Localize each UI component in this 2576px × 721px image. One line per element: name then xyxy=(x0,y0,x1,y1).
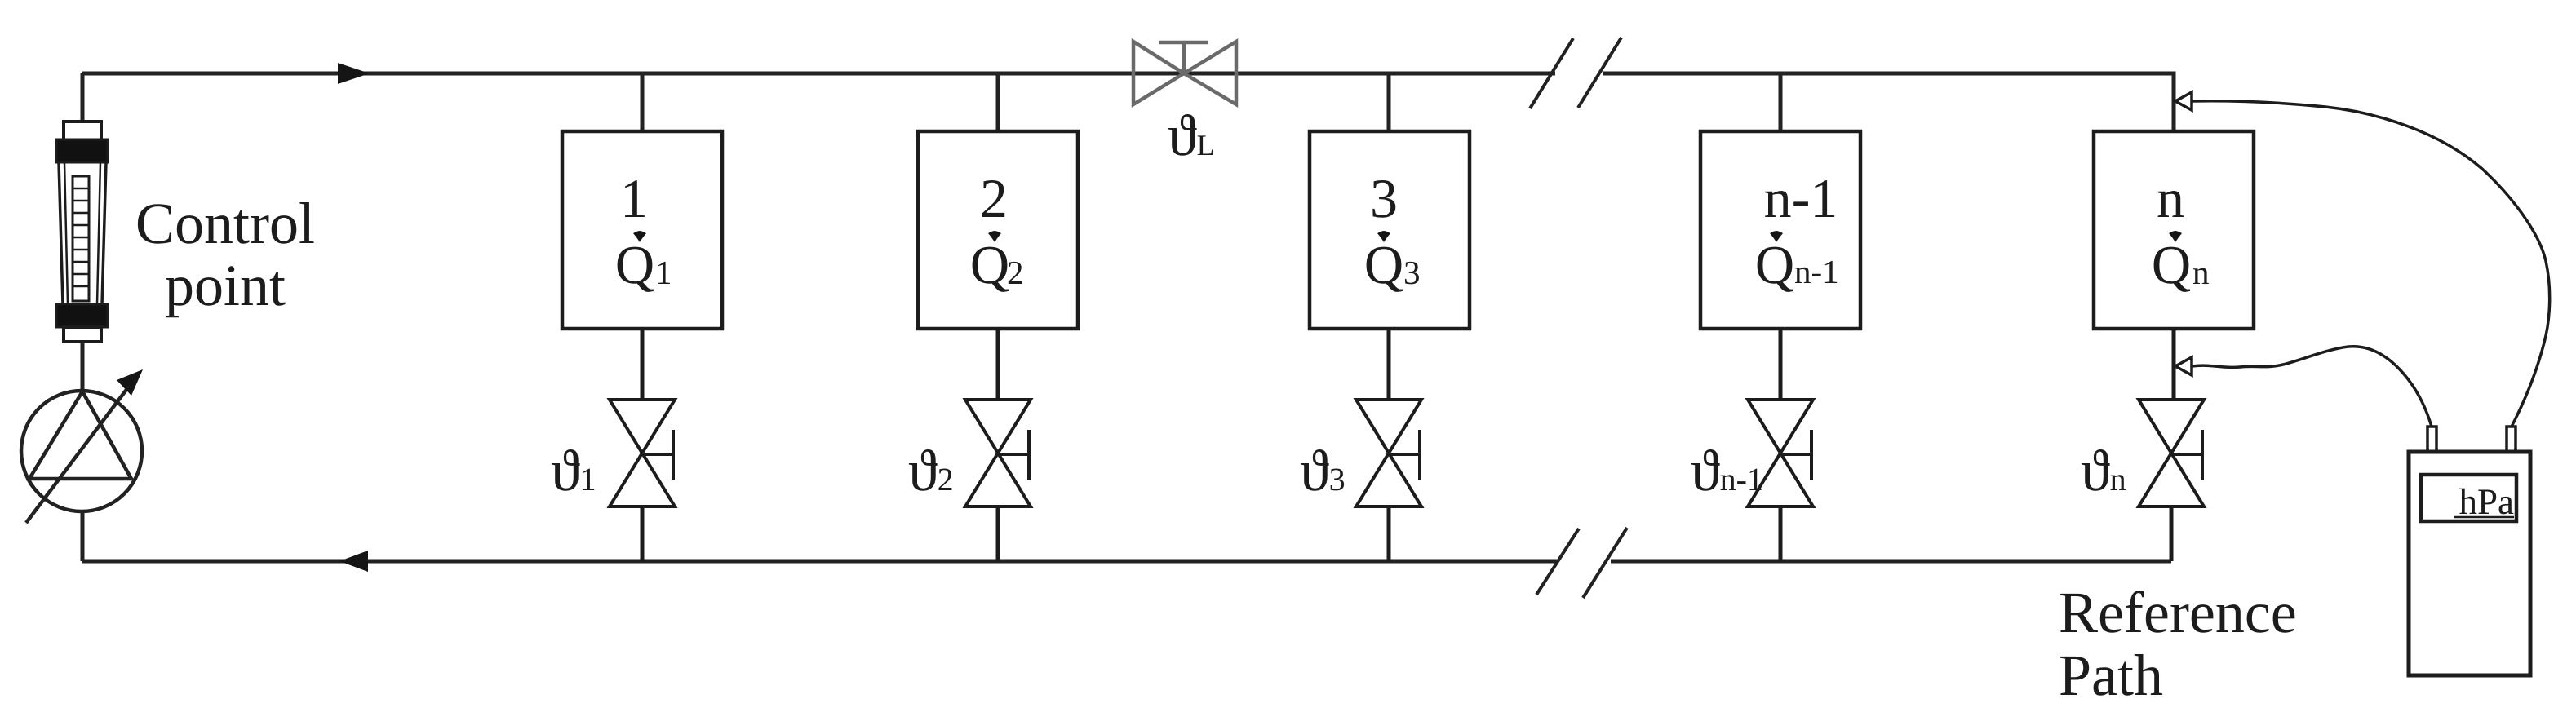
label box1 number 1 xyxy=(625,180,645,217)
label Q2 flow xyxy=(973,247,1009,292)
valve thetaL (bypass, gray) xyxy=(1133,42,1236,104)
box 3 xyxy=(1310,73,1470,329)
connector arrow lower xyxy=(2175,357,2192,375)
wire pump to bottom line xyxy=(81,511,85,561)
wire rotameter to pump xyxy=(81,341,85,392)
valve Vn-1 xyxy=(1748,329,1813,561)
pressure meter cable upper xyxy=(2192,101,2550,427)
label box n number xyxy=(2158,191,2184,217)
label Q2 subscript xyxy=(1009,262,1022,284)
break marks top line xyxy=(1530,38,1621,108)
label Path (text as path) xyxy=(2060,654,2162,696)
box n xyxy=(2094,131,2254,329)
label theta3 xyxy=(1301,449,1344,491)
arrow flow top xyxy=(338,63,370,84)
box 2 xyxy=(918,73,1078,329)
label box3 number 3 xyxy=(1372,180,1395,218)
valve V1 xyxy=(610,329,675,561)
box n-1 xyxy=(1700,73,1860,329)
label Qn-1 flow xyxy=(1758,247,1793,292)
label Q3 subscript xyxy=(1405,262,1419,285)
label theta2 xyxy=(909,449,952,491)
label hPa (text as path) xyxy=(2459,489,2514,515)
break marks bottom line xyxy=(1536,528,1627,598)
label Q3 flow xyxy=(1367,247,1403,292)
wire top line left segment xyxy=(82,72,1555,76)
wire left loop top (into rotameter) xyxy=(81,73,85,122)
label Q1 flow xyxy=(618,247,654,292)
label theta1 xyxy=(552,449,594,491)
wire bottom line right segment xyxy=(1611,560,2171,564)
connector arrow upper xyxy=(2175,92,2192,110)
wire bottom line left segment xyxy=(82,560,1558,564)
label theta n-1 xyxy=(1691,449,1762,491)
label Qn-1 subscript xyxy=(1795,261,1837,283)
label Qn subscript xyxy=(2193,268,2209,284)
pressure meter cable lower xyxy=(2192,347,2432,427)
pump P1 (variable, circle with triangle) xyxy=(21,384,142,523)
rotameter (flow meter) xyxy=(56,122,108,342)
label point (text as path) xyxy=(166,266,285,317)
valve V2 xyxy=(965,329,1031,561)
label box n-1 number xyxy=(1765,180,1834,217)
arrow flow bottom xyxy=(339,551,368,572)
label Control (text as path) xyxy=(138,202,314,244)
label Q1 subscript xyxy=(658,262,670,284)
box 1 xyxy=(562,73,722,329)
wire top line right segment xyxy=(1603,73,2174,131)
label Qn flow xyxy=(2154,247,2190,292)
label box2 number 2 xyxy=(982,180,1004,217)
label theta n xyxy=(2082,449,2126,491)
valve V3 xyxy=(1356,329,1421,561)
label thetaL xyxy=(1168,114,1213,156)
valve Vn xyxy=(2139,329,2204,561)
label Reference (text as path) xyxy=(2060,591,2294,632)
pressure meter (hPa device) xyxy=(2409,427,2530,675)
